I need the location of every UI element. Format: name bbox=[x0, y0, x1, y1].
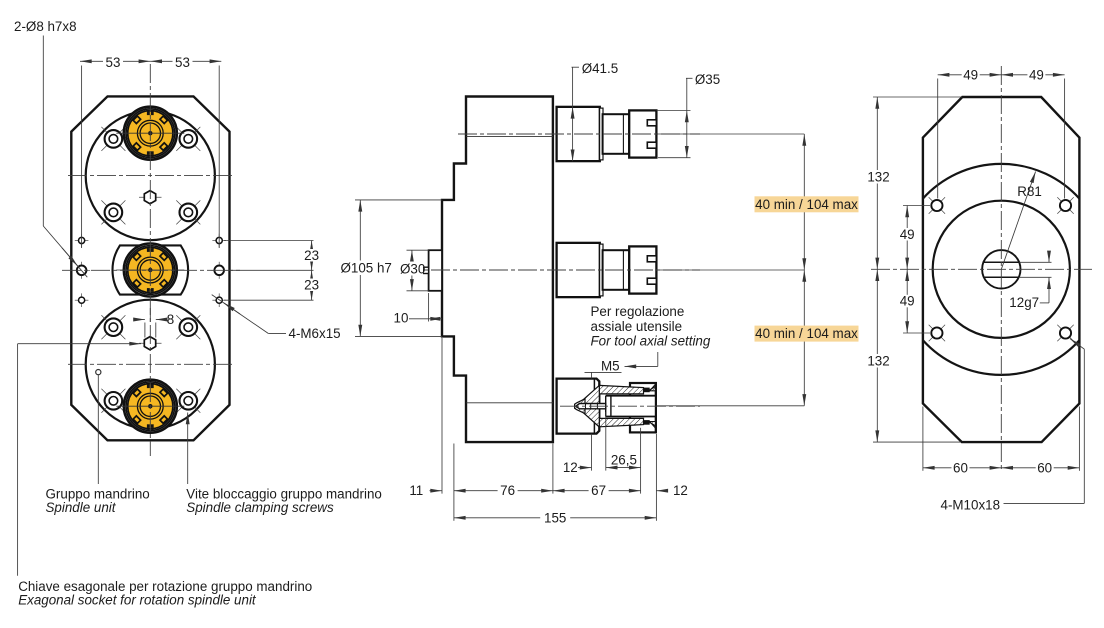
centerline horizontal top circle bbox=[68, 175, 233, 177]
svg-text:4-M10x18: 4-M10x18 bbox=[941, 497, 1001, 512]
svg-text:12: 12 bbox=[673, 483, 688, 498]
spindle nose top bbox=[557, 107, 657, 161]
dim Ø30 bbox=[398, 250, 429, 291]
svg-text:76: 76 bbox=[500, 483, 515, 498]
dim 49 side lower bbox=[898, 269, 916, 333]
R81 swing arc top bbox=[923, 164, 1080, 199]
dim Ø105 h7 bbox=[338, 200, 442, 337]
spacing dim vertical bottom bbox=[803, 270, 805, 406]
middle unit circle bbox=[933, 201, 1070, 338]
svg-text:67: 67 bbox=[591, 483, 606, 498]
sectioned collet nut body bbox=[630, 383, 656, 432]
spindle collet S3 bottom bbox=[116, 380, 184, 433]
collet bore bbox=[606, 383, 656, 432]
label per regolazione bbox=[591, 304, 711, 366]
svg-text:8: 8 bbox=[167, 312, 174, 327]
svg-text:49: 49 bbox=[900, 294, 915, 309]
svg-text:R81: R81 bbox=[1017, 184, 1042, 199]
shaft hole with 12g7 flats bbox=[982, 250, 1020, 288]
spindle insert rear face bbox=[593, 379, 595, 434]
dim Ø35 bbox=[656, 72, 720, 158]
svg-text:132: 132 bbox=[867, 170, 889, 185]
middle spindle cutout bbox=[113, 245, 189, 294]
small pilot hole (gruppo mandrino leader target) bbox=[96, 370, 101, 375]
dim 10 bbox=[394, 293, 442, 326]
leader vite bloccaggio bbox=[186, 413, 382, 515]
svg-text:53: 53 bbox=[175, 55, 190, 70]
hex socket top (rotation key) bbox=[139, 191, 162, 204]
sectioned spindle: clamp collar bbox=[557, 379, 600, 434]
nut corner chamfer hatch top bbox=[650, 384, 656, 391]
dim 67 bbox=[553, 483, 641, 498]
centerline middle spindle axis bbox=[402, 269, 700, 271]
housing body profile bbox=[442, 97, 553, 443]
svg-text:12g7: 12g7 bbox=[1009, 295, 1039, 310]
dim 60 right bbox=[1001, 460, 1079, 475]
svg-text:Ø41.5: Ø41.5 bbox=[582, 61, 618, 76]
dim 49 side upper bbox=[898, 206, 930, 334]
rear center pin bbox=[423, 267, 429, 273]
collet taper line top bbox=[650, 386, 656, 390]
svg-text:60: 60 bbox=[1037, 460, 1052, 475]
horizontal centerline rear view bbox=[871, 268, 1092, 270]
svg-text:60: 60 bbox=[953, 460, 968, 475]
vertical centerline left view bbox=[149, 64, 151, 456]
M5 adjusting screw bbox=[576, 404, 606, 409]
leader chiave esagonale bbox=[18, 344, 313, 608]
spindle unit bore circle (top) bbox=[86, 111, 215, 240]
hex socket bottom (rotation key) bbox=[139, 337, 162, 350]
collet slot dark top bbox=[644, 388, 650, 393]
vertical centerline rear view bbox=[1000, 66, 1002, 471]
svg-text:10: 10 bbox=[394, 311, 409, 326]
R81 swing arc bottom bbox=[923, 340, 1080, 375]
svg-text:40 min / 104 max: 40 min / 104 max bbox=[755, 326, 858, 341]
extension lines 53 bbox=[81, 66, 83, 249]
dim 8 (hex across flats) bbox=[134, 308, 175, 338]
svg-text:155: 155 bbox=[544, 510, 566, 525]
dim 12g7 bbox=[1009, 253, 1051, 310]
leader gruppo mandrino bbox=[46, 375, 150, 515]
leader 2-Ø8 h7x8 bbox=[14, 19, 87, 277]
extension lines bottom dims bbox=[591, 372, 593, 378]
seat nose cone bbox=[575, 399, 585, 414]
dim 53 right bbox=[150, 55, 221, 70]
collet slot dark bottom bbox=[644, 420, 650, 425]
svg-text:49: 49 bbox=[963, 67, 978, 82]
svg-text:23: 23 bbox=[304, 248, 319, 263]
rear plate octagon bbox=[923, 97, 1080, 442]
clamping screw holes around bottom unit bbox=[101, 315, 125, 339]
edge holes left column bbox=[75, 234, 89, 248]
svg-text:Spindle clamping screws: Spindle clamping screws bbox=[186, 500, 334, 515]
collet taper line bottom bbox=[650, 422, 656, 426]
centerline horizontal bottom circle bbox=[68, 363, 233, 365]
highlight 40 min / 104 max top bbox=[755, 196, 859, 212]
label M5 bbox=[585, 358, 658, 373]
connector lines to spacing dim bbox=[656, 133, 804, 135]
dim 53 left bbox=[80, 55, 150, 70]
hatched collet band upper bbox=[599, 385, 643, 394]
dim 132 top bbox=[866, 97, 963, 442]
svg-text:Ø30: Ø30 bbox=[400, 261, 425, 276]
svg-text:12: 12 bbox=[563, 460, 578, 475]
spacing dim vertical top bbox=[803, 134, 805, 270]
horizontal centerline middle spindle bbox=[62, 269, 240, 271]
svg-text:2-Ø8 h7x8: 2-Ø8 h7x8 bbox=[14, 19, 77, 34]
svg-text:Spindle unit: Spindle unit bbox=[46, 500, 117, 515]
M10 holes bbox=[929, 197, 945, 213]
edge holes right column bbox=[212, 234, 226, 248]
housing internal edge top bbox=[466, 135, 553, 137]
dim 12 (right) bbox=[656, 483, 687, 498]
leader R81 bbox=[1001, 172, 1042, 270]
centerline bottom spindle axis bbox=[560, 405, 700, 407]
housing internal edge bottom bbox=[466, 402, 553, 404]
seat wedge hatch upper bbox=[579, 385, 600, 403]
svg-text:49: 49 bbox=[900, 227, 915, 242]
dim 76 bbox=[454, 483, 553, 498]
nut corner chamfer hatch bottom bbox=[650, 422, 656, 429]
svg-text:Per regolazione: Per regolazione bbox=[591, 304, 685, 319]
svg-text:For tool axial setting: For tool axial setting bbox=[591, 334, 711, 349]
svg-text:Ø35: Ø35 bbox=[695, 72, 720, 87]
svg-text:26,5: 26,5 bbox=[611, 452, 637, 467]
spindle collet S2 middle bbox=[116, 244, 184, 297]
dim 23 bottom bbox=[303, 270, 321, 300]
leader 4-M6x15 bbox=[212, 295, 341, 341]
spindle unit bore circle (bottom) bbox=[86, 300, 215, 429]
svg-text:Ø105 h7: Ø105 h7 bbox=[341, 260, 392, 275]
hatched collet band lower bbox=[599, 418, 643, 426]
svg-text:4-M6x15: 4-M6x15 bbox=[289, 326, 341, 341]
dim 132 bottom bbox=[866, 269, 892, 442]
svg-text:Exagonal socket for rotation s: Exagonal socket for rotation spindle uni… bbox=[18, 592, 257, 607]
svg-text:M5: M5 bbox=[601, 358, 620, 373]
dim 11 bbox=[409, 483, 442, 498]
dim 49 top-left bbox=[938, 67, 1002, 82]
spindle collet S1 top bbox=[116, 107, 184, 160]
svg-text:53: 53 bbox=[106, 55, 121, 70]
clamping screw holes around top unit bbox=[101, 127, 125, 151]
front plate octagon bbox=[71, 96, 229, 440]
seat wedge hatch lower bbox=[579, 409, 600, 427]
leader 4-M10x18 bbox=[941, 339, 1085, 513]
spindle nose middle bbox=[557, 243, 657, 297]
svg-text:49: 49 bbox=[1029, 67, 1044, 82]
highlight 40 min / 104 max bottom bbox=[755, 326, 859, 342]
dim Ø41.5 bbox=[572, 61, 619, 161]
centerline top nose bbox=[458, 133, 700, 135]
dim 155 bbox=[454, 510, 657, 525]
dim 23 top bbox=[224, 241, 321, 301]
svg-text:assiale utensile: assiale utensile bbox=[591, 319, 683, 334]
dim 49 top-right bbox=[1001, 67, 1064, 82]
svg-text:132: 132 bbox=[867, 354, 889, 369]
dim 60 left bbox=[923, 407, 1080, 476]
Ø30 rear boss bbox=[429, 250, 442, 291]
svg-text:40 min / 104 max: 40 min / 104 max bbox=[755, 197, 858, 212]
dim 12 (collet) bbox=[563, 460, 592, 475]
svg-text:23: 23 bbox=[304, 277, 319, 292]
dim 26,5 bbox=[606, 452, 641, 467]
svg-text:11: 11 bbox=[409, 483, 423, 498]
